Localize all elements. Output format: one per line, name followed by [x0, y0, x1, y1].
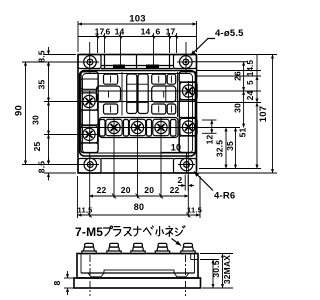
right terminal strip — [179, 72, 196, 153]
side screw 1 — [82, 243, 96, 253]
kana be — [144, 226, 154, 235]
pattern rect A4 — [152, 74, 166, 84]
centerline vertical left hole axis — [89, 42, 91, 73]
screw S3 — [106, 119, 122, 135]
caption leader arrow — [172, 239, 182, 246]
molded rib left column upper block — [81, 72, 98, 90]
dimension 8.5 bottom — [37, 157, 49, 181]
dimension 51 — [238, 103, 258, 169]
dimension 32.5 — [215, 128, 227, 169]
extension lines bottom — [77, 176, 79, 218]
svg-text:20: 20 — [121, 185, 131, 195]
centerline vertical right hole axis — [185, 42, 187, 73]
dimension 35 right — [225, 128, 236, 169]
svg-text:22: 22 — [170, 185, 180, 195]
svg-text:10: 10 — [171, 143, 181, 153]
dimension 30 left — [31, 102, 49, 135]
svg-text:14: 14 — [141, 27, 151, 37]
molded block below S2 — [81, 143, 98, 153]
svg-text:80: 80 — [134, 202, 144, 212]
extension lines top — [77, 21, 79, 52]
top strip dark vents — [113, 65, 125, 69]
case inner wall — [83, 74, 193, 154]
molded block between S1 S2 — [81, 110, 98, 125]
svg-text:2: 2 — [178, 175, 183, 185]
side extension lines right — [200, 253, 233, 255]
bottom terminal strip — [99, 118, 178, 138]
pattern rect C4 — [152, 104, 166, 114]
mounting hole bottom-left — [84, 158, 97, 171]
side view joint line — [81, 272, 195, 274]
pattern rect A1 — [104, 74, 118, 84]
svg-text:14: 14 — [115, 27, 125, 37]
svg-text:25: 25 — [32, 142, 42, 152]
screw S7 — [180, 118, 197, 135]
pattern big block B4 — [152, 86, 176, 102]
svg-text:6: 6 — [106, 27, 111, 37]
side view inner wall left — [80, 254, 82, 274]
pattern big block B1 — [96, 86, 120, 102]
corner pad top-right — [174, 55, 197, 69]
extension lines left — [44, 54, 76, 56]
centerline vertical S4 column — [137, 117, 139, 198]
callout 4-phi5.5 — [191, 28, 245, 56]
dimension 12 — [202, 120, 217, 144]
centerline horizontal S6 row — [80, 90, 257, 92]
top strip dividers — [104, 55, 106, 69]
corner pad bottom-left — [78, 159, 101, 174]
screw S1 — [80, 93, 97, 110]
kana ji — [176, 226, 186, 236]
side view right step — [191, 254, 198, 260]
side screw 3 — [131, 243, 145, 253]
kana ne — [166, 226, 173, 236]
centerline horizontal bottom screws row — [80, 127, 240, 129]
dimension 24 — [245, 76, 257, 103]
bar between S4 and S5 — [147, 120, 152, 137]
side view hole axis right — [185, 255, 187, 296]
kana ra — [114, 227, 121, 236]
svg-text:30: 30 — [31, 115, 41, 125]
svg-text:107: 107 — [258, 106, 269, 122]
centerline horizontal S2 row — [44, 134, 100, 136]
mounting hole bottom-right — [180, 158, 193, 171]
side screw 5 — [181, 243, 195, 253]
kanji small — [156, 227, 163, 236]
svg-text:103: 103 — [129, 14, 145, 25]
tall bar T1 — [127, 74, 137, 114]
screw S6 — [180, 82, 197, 99]
dimension 103 — [78, 14, 197, 25]
svg-text:8.5: 8.5 — [37, 161, 47, 173]
molded block between S6 S7 — [179, 100, 196, 118]
dimension 25 left — [32, 135, 49, 165]
svg-text:20: 20 — [144, 185, 154, 195]
dimension 90 — [14, 62, 26, 165]
svg-text:4-ø5.5: 4-ø5.5 — [215, 28, 244, 39]
pattern centre ticks — [109, 76, 172, 113]
svg-text:5: 5 — [246, 80, 255, 85]
dimension 30.5 — [211, 260, 221, 289]
extension lines right — [198, 54, 277, 56]
dimension 35 left — [37, 62, 49, 102]
svg-text:24: 24 — [245, 91, 255, 101]
side view right recess — [174, 273, 189, 277]
corner pad top-left — [78, 55, 101, 69]
dimension 14.5 — [246, 55, 257, 77]
side view inner wall right — [194, 254, 196, 274]
kana na — [134, 227, 142, 236]
side view case body — [77, 254, 198, 279]
dimension row 17 6 14 14 6 17 — [78, 27, 197, 39]
baseplate outline — [78, 55, 197, 174]
case outer wall — [80, 71, 196, 157]
svg-text:26: 26 — [233, 71, 243, 81]
kana su — [124, 228, 131, 236]
bar between S2 and S3 — [100, 120, 106, 137]
screw S4 — [129, 119, 145, 135]
dimension 32MAX — [222, 254, 232, 289]
side screw 2 — [107, 243, 121, 253]
pattern rect C5 — [167, 104, 176, 114]
svg-text:51: 51 — [238, 128, 248, 138]
callout 4-R6 — [194, 172, 235, 202]
svg-text:11.5: 11.5 — [187, 206, 202, 215]
dimension 8.5 top — [37, 47, 49, 70]
mounting hole top-right — [180, 56, 193, 69]
side view baseplate — [74, 278, 201, 288]
dimension 8 side — [52, 271, 75, 295]
svg-text:4-R6: 4-R6 — [214, 191, 235, 202]
svg-text:8.5: 8.5 — [37, 50, 47, 62]
molded rib right column upper block — [179, 72, 196, 82]
svg-text:7-M5: 7-M5 — [75, 225, 103, 239]
screw S2 — [80, 126, 97, 143]
tall bar T2 — [138, 74, 148, 114]
dimension 10 internal — [161, 143, 191, 153]
left terminal strip — [81, 72, 98, 153]
svg-text:22: 22 — [97, 185, 107, 195]
side view left recess — [88, 273, 104, 277]
centerline horizontal S1 row — [44, 101, 197, 103]
svg-text:17: 17 — [95, 27, 105, 37]
mounting hole top-left — [84, 56, 97, 69]
pattern rect C1 — [104, 104, 118, 114]
top flange strip lines — [101, 65, 174, 67]
vertical rib line right — [177, 72, 179, 117]
centerline vertical S5 column — [160, 117, 162, 198]
svg-text:30.5: 30.5 — [211, 260, 221, 277]
svg-text:30: 30 — [233, 103, 243, 113]
kana pu — [104, 226, 113, 236]
svg-text:17: 17 — [166, 27, 176, 37]
bar between S3 and S4 — [124, 120, 129, 137]
svg-text:32MAX: 32MAX — [222, 255, 232, 284]
dimension row 22 20 20 22 — [89, 185, 189, 199]
svg-text:35: 35 — [225, 141, 235, 151]
bar between S5 and right column — [171, 120, 177, 137]
dimension 2 — [178, 175, 194, 191]
svg-text:8: 8 — [52, 280, 62, 285]
svg-text:11.5: 11.5 — [78, 206, 93, 215]
corner pad bottom-right — [174, 159, 197, 174]
svg-text:12: 12 — [205, 135, 215, 145]
screw S5 — [153, 119, 169, 135]
bottom flange strip line — [101, 158, 174, 160]
dimension row 11.5 80 11.5 — [78, 202, 202, 218]
side view slot — [104, 270, 174, 273]
molded block below S7 — [179, 136, 196, 153]
pattern rect A5 — [167, 74, 176, 84]
svg-text:6: 6 — [156, 27, 161, 37]
dimension 5 — [246, 71, 257, 85]
dimension 107 — [258, 55, 273, 174]
side view hole axis left — [89, 255, 91, 296]
svg-text:90: 90 — [14, 105, 25, 116]
vertical rib line — [121, 72, 123, 116]
centerline vertical S3 column — [113, 117, 115, 198]
svg-text:35: 35 — [37, 80, 47, 90]
centerline vertical S6 S7 column — [188, 81, 190, 137]
dimension 30 right — [233, 91, 244, 128]
svg-text:32.5: 32.5 — [215, 140, 225, 157]
svg-text:14.5: 14.5 — [246, 59, 255, 76]
side screw 4 — [155, 243, 169, 253]
dimension 26 — [233, 62, 244, 91]
